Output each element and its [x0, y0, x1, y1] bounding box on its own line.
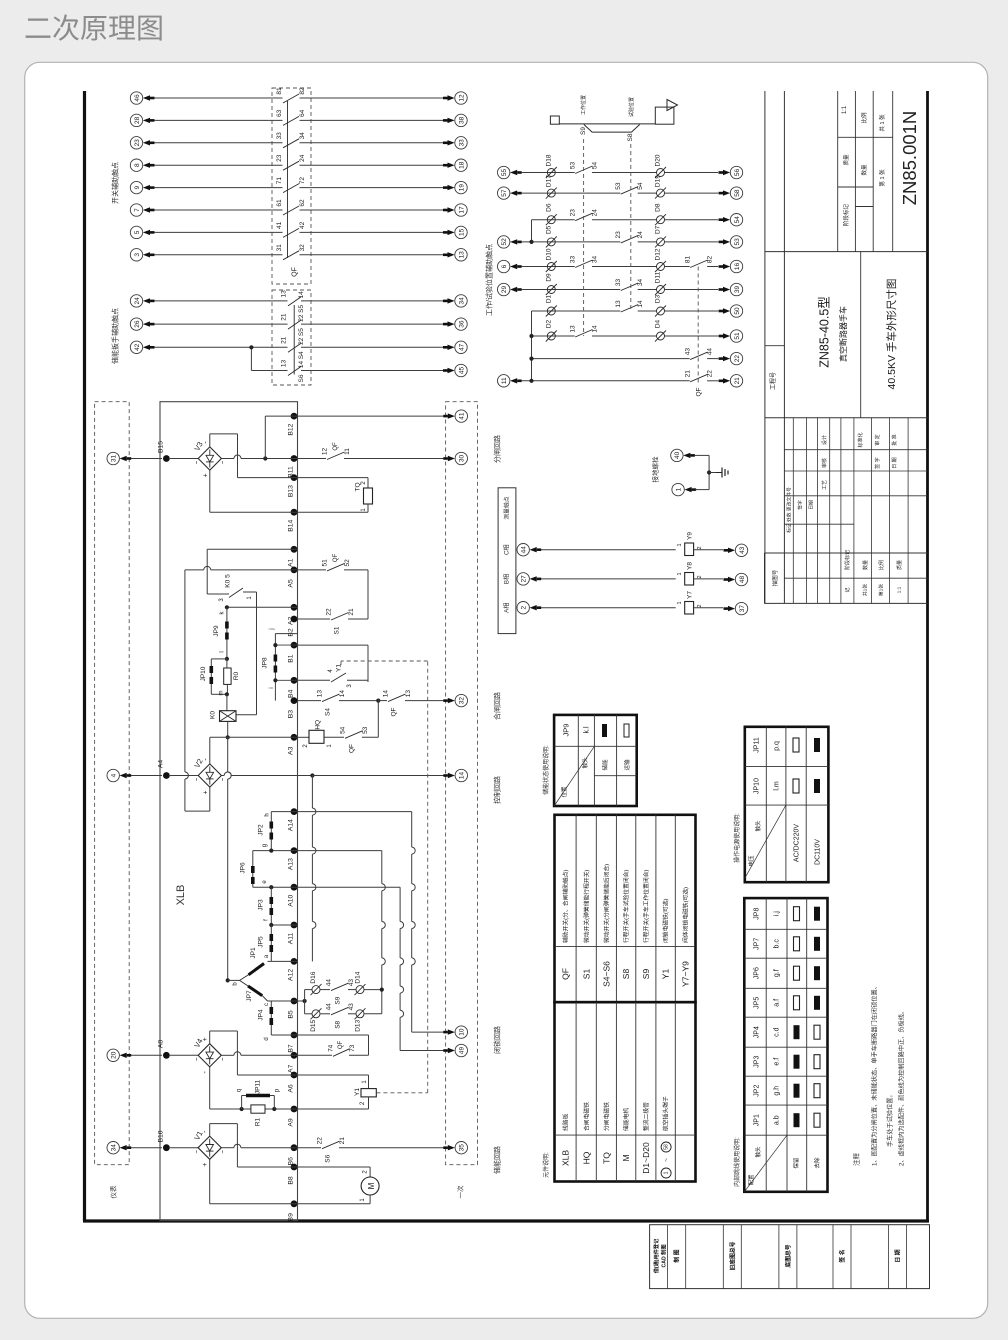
- wire A3 row internal: [210, 736, 298, 738]
- drawing frame left border: [83, 91, 86, 1221]
- svg-text:44: 44: [325, 979, 332, 987]
- terminal dot A7: [291, 1052, 298, 1059]
- svg-text:2: 2: [697, 575, 703, 578]
- svg-text:B3: B3: [287, 710, 294, 719]
- svg-text:S8: S8: [334, 1020, 341, 1028]
- svg-text:S4: S4: [298, 351, 305, 359]
- contact S4 13-14: [322, 694, 340, 702]
- svg-text:54: 54: [591, 162, 598, 170]
- svg-text:46: 46: [134, 94, 141, 102]
- svg-text:数量: 数量: [860, 164, 868, 176]
- svg-text:24: 24: [299, 154, 306, 162]
- contact QF 54-53: [345, 731, 363, 739]
- svg-text:14: 14: [459, 772, 466, 780]
- wire: [665, 289, 719, 291]
- svg-text:+: +: [202, 790, 209, 794]
- svg-text:JP10: JP10: [200, 666, 207, 681]
- svg-text:A14: A14: [287, 819, 294, 831]
- svg-text:B7: B7: [287, 1044, 294, 1053]
- svg-text:B相: B相: [503, 574, 511, 584]
- svg-text:S9: S9: [334, 996, 341, 1004]
- svg-text:QF: QF: [390, 707, 397, 716]
- svg-text:日 期: 日 期: [892, 457, 898, 468]
- svg-text:审核: 审核: [821, 458, 828, 468]
- svg-text:标记 处数 更改文件号: 标记 处数 更改文件号: [786, 487, 793, 533]
- contact QF 61-62: [283, 206, 299, 215]
- terminal 3: [130, 249, 142, 261]
- jumper JP6: [252, 851, 254, 888]
- wire A6 right branch: [298, 1074, 369, 1076]
- svg-text:27: 27: [521, 575, 528, 583]
- wire: [300, 97, 444, 99]
- svg-text:S8: S8: [627, 133, 634, 141]
- svg-text:C相: C相: [503, 544, 511, 555]
- svg-text:工程号: 工程号: [769, 372, 777, 390]
- wire A13 down to diode rows: [298, 850, 382, 852]
- terminal dot A5: [291, 567, 298, 574]
- title block texts: [769, 105, 920, 596]
- svg-text:1:1: 1:1: [842, 105, 848, 114]
- svg-text:37: 37: [739, 605, 746, 613]
- wire: [154, 164, 283, 166]
- svg-text:64: 64: [299, 109, 306, 117]
- terminal 54: [730, 214, 742, 226]
- svg-text:合闸回路: 合闸回路: [493, 692, 502, 720]
- svg-text:31: 31: [276, 244, 283, 252]
- svg-text:14: 14: [298, 291, 305, 299]
- svg-text:D14: D14: [354, 971, 361, 983]
- contact QF 81-82: [690, 260, 707, 268]
- terminal dot A12: [291, 958, 298, 965]
- svg-text:51: 51: [734, 332, 741, 340]
- svg-text:21: 21: [280, 336, 287, 344]
- wire A1 internal: [207, 548, 297, 550]
- svg-text:53: 53: [362, 726, 369, 734]
- svg-text:58: 58: [663, 1144, 669, 1150]
- svg-text:4: 4: [111, 773, 118, 777]
- svg-text:D13: D13: [354, 1019, 361, 1031]
- terminal 13: [455, 249, 467, 261]
- svg-text:JP6: JP6: [239, 862, 246, 874]
- svg-text:B4: B4: [287, 689, 294, 698]
- svg-text:43: 43: [348, 1003, 355, 1011]
- svg-text:B15: B15: [157, 441, 164, 453]
- svg-text:JP10: JP10: [754, 778, 761, 794]
- svg-text:测量触点: 测量触点: [503, 496, 511, 519]
- svg-text:触头: 触头: [754, 820, 762, 832]
- svg-text:S8: S8: [621, 969, 631, 980]
- wire V2 minus to A3 row: [209, 737, 211, 764]
- wire: [541, 607, 676, 609]
- diode D19: [657, 189, 665, 197]
- svg-text:e.f: e.f: [774, 1058, 781, 1066]
- svg-text:阶段标记: 阶段标记: [844, 550, 851, 570]
- terminal 18: [455, 159, 467, 171]
- svg-text:k.l: k.l: [584, 726, 591, 733]
- svg-text:21: 21: [280, 313, 287, 321]
- svg-text:14: 14: [382, 690, 389, 698]
- terminal 8: [130, 159, 142, 171]
- terminal 22: [730, 352, 742, 364]
- wire V4 minus to A9: [209, 1067, 211, 1109]
- wire B7 right branch: [298, 1034, 369, 1036]
- diode D4: [657, 332, 665, 340]
- svg-text:28: 28: [134, 116, 141, 124]
- svg-text:47: 47: [458, 343, 465, 351]
- svg-text:合闸电磁铁: 合闸电磁铁: [582, 1102, 590, 1131]
- svg-text:+: +: [202, 1163, 209, 1167]
- svg-text:航空插头端子: 航空插头端子: [662, 1096, 670, 1131]
- svg-text:JP9: JP9: [213, 625, 220, 637]
- svg-text:D7: D7: [654, 225, 661, 234]
- svg-text:43: 43: [685, 348, 692, 356]
- wire rail bottom to V2 plus: [185, 810, 210, 812]
- svg-text:D11: D11: [654, 271, 661, 283]
- contact QF 14-13: [378, 700, 387, 702]
- svg-text:微动开关(分闸弹簧储能后闭合): 微动开关(分闸弹簧储能后闭合): [602, 864, 610, 943]
- svg-text:24: 24: [591, 209, 598, 217]
- terminal 34: [455, 295, 467, 307]
- svg-text:11: 11: [344, 448, 351, 455]
- wire: [665, 241, 719, 243]
- terminal 50: [730, 305, 742, 317]
- svg-text:34: 34: [637, 279, 644, 287]
- terminal 6: [498, 260, 510, 272]
- svg-text:D18: D18: [545, 154, 552, 166]
- wire: [638, 310, 657, 312]
- svg-text:R0: R0: [233, 671, 240, 680]
- diode D12: [657, 263, 665, 271]
- wire: [301, 370, 443, 372]
- dashed line S8: [630, 144, 632, 311]
- svg-text:操作电源使用说明:: 操作电源使用说明:: [733, 813, 741, 863]
- svg-text:B13: B13: [287, 485, 294, 497]
- wire: [154, 187, 283, 189]
- svg-text:工艺: 工艺: [822, 480, 828, 490]
- svg-text:制 图: 制 图: [673, 1249, 681, 1262]
- svg-text:比例: 比例: [860, 112, 868, 124]
- svg-text:日期: 日期: [809, 500, 815, 510]
- svg-text:Y1: Y1: [661, 969, 671, 980]
- wire: [154, 209, 283, 211]
- svg-text:A9: A9: [287, 1118, 294, 1127]
- svg-text:Y1: Y1: [354, 1088, 361, 1096]
- terminal 19: [455, 181, 467, 193]
- svg-text:34: 34: [458, 297, 465, 305]
- contact 13-14: [621, 305, 638, 313]
- svg-text:B12: B12: [287, 423, 294, 435]
- terminal 11: [498, 375, 510, 387]
- svg-text:82: 82: [706, 256, 713, 264]
- terminal 29: [498, 283, 510, 295]
- relay contact K0 5-3: [207, 593, 229, 595]
- svg-text:54: 54: [339, 726, 346, 734]
- svg-text:74: 74: [327, 1044, 334, 1052]
- svg-text:S9: S9: [641, 969, 651, 980]
- svg-text:1: 1: [677, 572, 683, 575]
- rectifier bridge V2: [198, 764, 221, 787]
- contact S5 21-22: [288, 320, 301, 329]
- wire A14 down to terminal 10: [298, 811, 412, 813]
- terminal 10: [455, 1026, 467, 1038]
- svg-text:g.h: g.h: [774, 1086, 781, 1096]
- wire: [154, 323, 288, 325]
- contact S9 44-43: [331, 983, 349, 991]
- svg-text:21: 21: [339, 1137, 346, 1145]
- svg-text:c.d: c.d: [774, 1027, 781, 1036]
- wire: [521, 289, 620, 291]
- svg-text:JP2: JP2: [257, 824, 264, 836]
- svg-text:JP3: JP3: [754, 1056, 761, 1068]
- svg-text:30: 30: [459, 455, 466, 463]
- svg-text:1: 1: [675, 487, 682, 491]
- svg-text:B2: B2: [287, 628, 294, 637]
- wire A13 stub: [253, 850, 298, 852]
- diode D16: [312, 986, 320, 994]
- svg-text:S4~S6: S4~S6: [601, 961, 611, 987]
- wire: [665, 335, 719, 337]
- svg-text:81: 81: [685, 256, 692, 264]
- svg-text:仪表: 仪表: [108, 1185, 117, 1199]
- wire A5 to S1: [367, 570, 369, 619]
- svg-text:10: 10: [459, 1028, 466, 1036]
- svg-text:40: 40: [674, 451, 681, 459]
- terminal dot A1: [291, 546, 298, 553]
- terminal 33: [455, 137, 467, 149]
- svg-text:B1: B1: [287, 654, 294, 663]
- svg-text:23: 23: [134, 139, 141, 147]
- svg-text:6: 6: [501, 264, 508, 268]
- svg-text:内部跳线使用说明:: 内部跳线使用说明:: [733, 1137, 741, 1187]
- svg-text:D12: D12: [654, 248, 661, 260]
- svg-text:35: 35: [459, 1144, 466, 1152]
- wire V1 minus over-jump to B8: [209, 1124, 211, 1137]
- svg-text:储能: 储能: [601, 759, 609, 771]
- contact QF 33-34: [283, 139, 299, 148]
- svg-text:D5: D5: [545, 225, 552, 234]
- svg-text:A13: A13: [287, 858, 294, 870]
- svg-text:K0: K0: [209, 711, 216, 719]
- svg-text:B5: B5: [287, 1010, 294, 1019]
- terminal 44: [517, 544, 529, 556]
- svg-text:53: 53: [570, 162, 577, 170]
- wire B5 row left to c: [268, 1000, 298, 1002]
- svg-text:g.f: g.f: [774, 969, 781, 977]
- contact QF 51-52 on A5: [298, 569, 327, 571]
- svg-text:运输: 运输: [623, 759, 631, 771]
- svg-text:34: 34: [591, 256, 598, 264]
- wire A10 down to terminal 49: [298, 886, 401, 888]
- svg-text:33: 33: [458, 139, 465, 147]
- svg-text:触头: 触头: [754, 1146, 762, 1158]
- wire: [154, 231, 283, 233]
- svg-text:QF: QF: [560, 968, 570, 980]
- svg-text:注释: 注释: [851, 1153, 860, 1167]
- svg-text:标准化: 标准化: [857, 432, 864, 447]
- svg-text:HQ: HQ: [581, 1151, 591, 1164]
- svg-text:旧底图总号: 旧底图总号: [728, 1241, 736, 1270]
- svg-text:一次: 一次: [455, 1185, 464, 1199]
- svg-text:QF: QF: [338, 1041, 344, 1050]
- terminal dot A3: [291, 734, 298, 741]
- svg-text:61: 61: [276, 199, 283, 207]
- wire: [154, 300, 288, 302]
- svg-text:D8: D8: [654, 203, 661, 212]
- contact QF 23-24: [283, 161, 299, 170]
- wire: [638, 241, 657, 243]
- wire: [154, 346, 288, 348]
- selector JP1 blade: [249, 964, 265, 975]
- svg-text:13: 13: [405, 690, 412, 698]
- terminal dot B14: [291, 509, 298, 516]
- terminal 16: [730, 260, 742, 272]
- svg-text:21: 21: [685, 370, 692, 378]
- valve electromagnet Y8: [685, 573, 694, 586]
- svg-text:QF: QF: [333, 553, 339, 562]
- svg-text:JP4: JP4: [257, 1009, 264, 1021]
- svg-text:去除: 去除: [813, 1157, 821, 1169]
- jumper JP2: [270, 812, 272, 851]
- terminal 30: [455, 452, 467, 464]
- wire contact to K0 side: [256, 592, 258, 715]
- wire: [300, 231, 444, 233]
- wire: [592, 266, 657, 268]
- svg-text:JP6: JP6: [754, 967, 761, 979]
- svg-text:TQ: TQ: [601, 1152, 611, 1164]
- terminal 58: [730, 187, 742, 199]
- svg-text:55: 55: [501, 169, 508, 177]
- wire: [301, 323, 443, 325]
- svg-text:分闸回路: 分闸回路: [493, 435, 502, 463]
- terminal 45: [455, 364, 467, 376]
- jumper JP3: [270, 887, 272, 925]
- svg-text:44: 44: [521, 546, 528, 554]
- svg-text:设计: 设计: [821, 435, 828, 445]
- svg-text:5: 5: [134, 230, 141, 234]
- svg-text:33: 33: [615, 279, 622, 287]
- svg-text:53: 53: [734, 238, 741, 246]
- wire: [170, 458, 198, 460]
- svg-text:42: 42: [299, 221, 306, 229]
- svg-text:分闸电磁铁: 分闸电磁铁: [602, 1102, 610, 1131]
- svg-text:h: h: [265, 813, 271, 816]
- closing coil HQ: [298, 736, 310, 738]
- svg-text:71: 71: [276, 177, 283, 185]
- terminal dot B1: [291, 642, 298, 649]
- latching electromagnet Y1: [368, 1075, 370, 1089]
- svg-text:32: 32: [459, 697, 466, 705]
- svg-text:ZN85.001N: ZN85.001N: [899, 111, 920, 206]
- svg-text:1: 1: [664, 1171, 670, 1174]
- wire: [665, 219, 719, 221]
- contact QF 31-32: [283, 251, 299, 260]
- svg-text:D1~D20: D1~D20: [641, 1142, 651, 1174]
- svg-text:签字: 签字: [797, 500, 804, 510]
- svg-text:d: d: [264, 1037, 270, 1040]
- svg-text:81: 81: [276, 87, 283, 95]
- svg-text:闭锁回路: 闭锁回路: [493, 1026, 502, 1054]
- terminal 31: [107, 452, 119, 464]
- svg-text:Y8: Y8: [686, 562, 693, 570]
- wire: [300, 142, 444, 144]
- svg-text:14: 14: [339, 690, 346, 698]
- svg-text:56: 56: [734, 169, 741, 177]
- terminal dot A10: [291, 884, 298, 891]
- svg-text:R1: R1: [254, 1117, 261, 1126]
- svg-text:接地螺栓: 接地螺栓: [650, 456, 659, 483]
- svg-text:位置: 位置: [560, 786, 568, 798]
- svg-text:CAD 制图: CAD 制图: [659, 1244, 667, 1267]
- svg-text:49: 49: [459, 1047, 466, 1055]
- svg-text:JP1: JP1: [754, 1114, 761, 1126]
- svg-text:QF: QF: [292, 267, 299, 277]
- terminal dot A8: [163, 1052, 170, 1059]
- table JP1-JP8 configuration: [744, 898, 827, 1192]
- terminal dot B9: [291, 1200, 298, 1207]
- wire: [131, 458, 162, 460]
- bottom registry strip table: [650, 1225, 930, 1289]
- svg-text:比例: 比例: [878, 560, 885, 570]
- svg-text:JP5: JP5: [257, 936, 264, 948]
- wire B12 row to terminal 41: [298, 415, 449, 417]
- svg-text:共1张: 共1张: [862, 584, 869, 596]
- svg-text:26: 26: [134, 320, 141, 328]
- contact QF 41-42: [283, 228, 299, 237]
- svg-text:~: ~: [194, 1057, 200, 1061]
- svg-text:16: 16: [734, 263, 741, 271]
- svg-text:辅助开关(分、合闸辅助触点): 辅助开关(分、合闸辅助触点): [561, 870, 569, 943]
- svg-text:A相: A相: [503, 603, 511, 613]
- wire from terminal 14 row down to A12: [311, 776, 313, 809]
- svg-text:QF: QF: [348, 744, 355, 753]
- terminal 43: [735, 544, 747, 556]
- svg-text:41: 41: [459, 412, 466, 420]
- svg-text:A10: A10: [287, 894, 294, 906]
- ground bolt terminal 40: [671, 449, 683, 461]
- contact QF 81-82: [283, 94, 299, 103]
- svg-text:行程开关(手车试验位置闭合): 行程开关(手车试验位置闭合): [622, 870, 630, 943]
- svg-text:D6: D6: [545, 203, 552, 212]
- contact QF 12-11: [327, 452, 345, 460]
- svg-text:储能电机: 储能电机: [622, 1108, 630, 1131]
- svg-text:13: 13: [615, 300, 622, 308]
- svg-text:B9: B9: [287, 1213, 294, 1222]
- jumper JP8: [275, 633, 297, 635]
- terminal 37: [735, 602, 747, 614]
- terminal dot A2: [291, 604, 298, 611]
- svg-text:23: 23: [276, 154, 283, 162]
- svg-text:AC/DC220V: AC/DC220V: [794, 824, 801, 862]
- svg-text:底图总号: 底图总号: [784, 1244, 792, 1267]
- diode D8: [657, 216, 665, 224]
- terminal 23: [130, 137, 142, 149]
- svg-text:签 名: 签 名: [838, 1249, 846, 1263]
- svg-text:阶段标记: 阶段标记: [842, 204, 850, 227]
- ground bolt terminal 1: [672, 483, 684, 495]
- diode D14: [356, 986, 364, 994]
- svg-text:29: 29: [501, 286, 508, 294]
- svg-text:质量: 质量: [896, 560, 903, 570]
- table component legend devices: [555, 1002, 696, 1181]
- wire: [521, 172, 575, 174]
- terminal dot B4: [291, 677, 298, 684]
- svg-text:g: g: [262, 844, 268, 847]
- svg-text:JP5: JP5: [754, 997, 761, 1009]
- drawing frame bottom border: [83, 1219, 929, 1222]
- rectifier bridge V1: [198, 1136, 221, 1159]
- contact QF 74-73 on A7: [298, 1054, 333, 1056]
- title block grid: [764, 91, 927, 603]
